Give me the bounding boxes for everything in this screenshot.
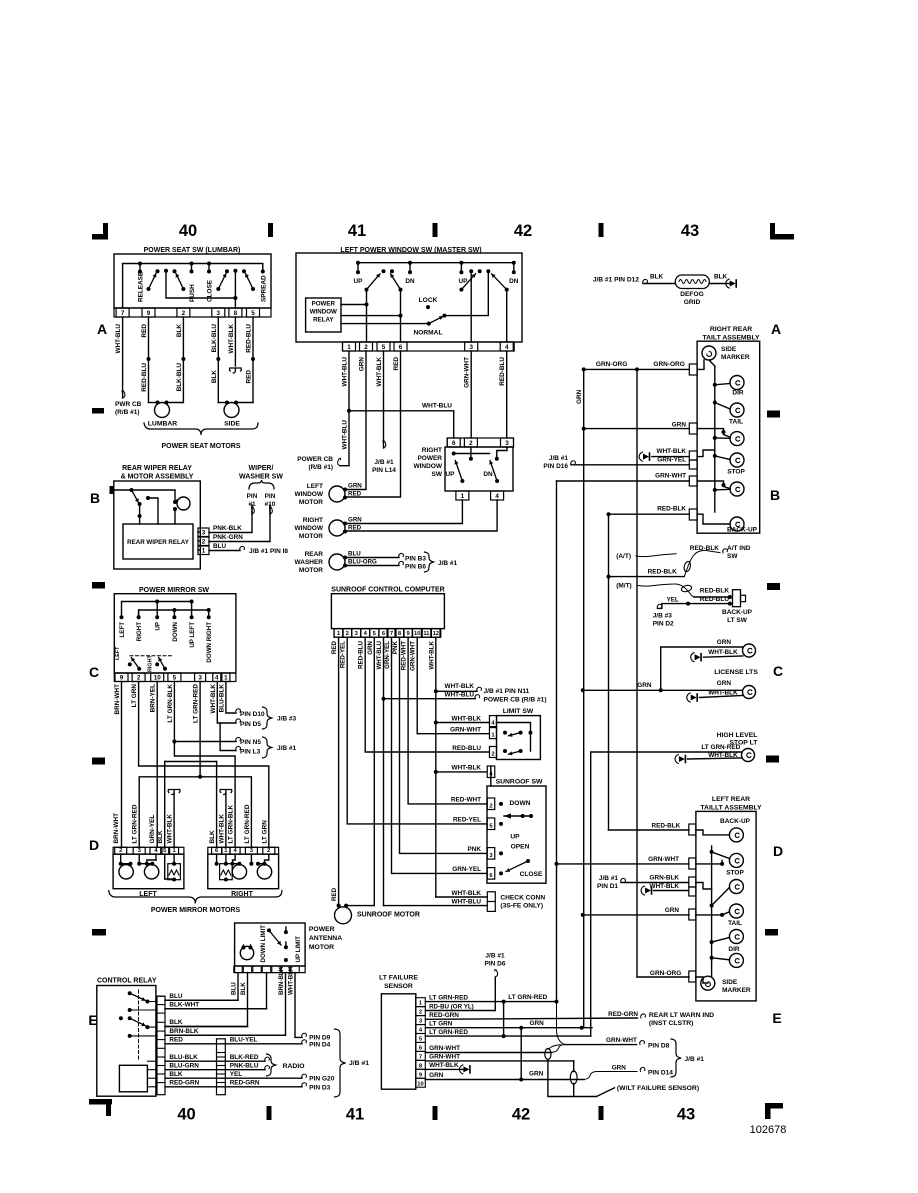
svg-text:2: 2 bbox=[419, 1010, 422, 1016]
svg-text:DOWN LIMIT: DOWN LIMIT bbox=[260, 925, 267, 963]
svg-text:J/B #1: J/B #1 bbox=[485, 953, 505, 960]
svg-text:3: 3 bbox=[419, 1019, 423, 1025]
right sw arm up bbox=[460, 479, 464, 483]
RELEASE contact bbox=[138, 262, 142, 266]
svg-text:GRN-WHT: GRN-WHT bbox=[429, 1045, 460, 1052]
mirror sw contact LEFT bbox=[120, 615, 124, 619]
wiper relay input connector bbox=[110, 486, 114, 494]
wire to J/B#1 PIN L3 bbox=[220, 723, 236, 751]
wire side marker feed bbox=[697, 360, 704, 369]
wire GRN-WHT right tail bbox=[557, 480, 690, 482]
PUSH contact bbox=[190, 262, 194, 266]
side marker lamp right bbox=[702, 346, 716, 360]
svg-text:2: 2 bbox=[489, 804, 492, 810]
STOP lamp left upper bbox=[729, 853, 743, 867]
CLOSE contact bbox=[207, 262, 211, 266]
limit sw arm row2 bbox=[509, 751, 521, 754]
svg-text:MARKER: MARKER bbox=[722, 987, 751, 994]
svg-text:BLU-ORG: BLU-ORG bbox=[348, 559, 377, 566]
sensor pin cells bbox=[416, 998, 426, 1007]
wire normal sw to rocker right bbox=[444, 271, 488, 315]
svg-text:UP LIMIT: UP LIMIT bbox=[295, 936, 302, 963]
svg-text:BLU-GRN: BLU-GRN bbox=[169, 1062, 199, 1069]
TAIL lamp right bbox=[730, 403, 744, 417]
svg-text:RED: RED bbox=[348, 491, 362, 498]
svg-text:BLK: BLK bbox=[650, 274, 664, 281]
right power window sw box bbox=[445, 447, 513, 491]
svg-text:PIN D2: PIN D2 bbox=[653, 621, 674, 628]
svg-text:PIN: PIN bbox=[265, 493, 276, 500]
svg-text:LT GRN: LT GRN bbox=[261, 820, 268, 844]
wire RED-YEL computer pin2 to sunroof sw pin5 bbox=[347, 637, 487, 824]
svg-text:RIGHT: RIGHT bbox=[136, 622, 143, 641]
seat sw rocker 2 center wire to pin 8 bbox=[233, 296, 237, 300]
wire BLK pin2 to lumbar motor bbox=[182, 317, 184, 403]
sunroof sw contact pin5 bbox=[499, 822, 503, 826]
svg-text:GRN-ORG: GRN-ORG bbox=[596, 361, 627, 368]
svg-text:SUNROOF CONTROL COMPUTER: SUNROOF CONTROL COMPUTER bbox=[331, 587, 444, 594]
svg-text:DEFOG: DEFOG bbox=[680, 291, 703, 298]
wire LT GRN-RED mirror pin3 bbox=[199, 682, 201, 777]
wire BRN-BLK antenna bbox=[165, 973, 286, 1036]
svg-text:9: 9 bbox=[406, 631, 410, 637]
svg-text:(R/B #1): (R/B #1) bbox=[308, 464, 333, 471]
svg-text:WASHER: WASHER bbox=[294, 559, 323, 566]
wire GRN-WHT bus continues bbox=[556, 864, 558, 1002]
svg-text:MOTOR: MOTOR bbox=[299, 499, 323, 506]
power antenna motor box bbox=[235, 923, 306, 966]
svg-text:SW: SW bbox=[727, 553, 738, 560]
SPREAD contact bbox=[261, 270, 265, 274]
svg-text:1: 1 bbox=[337, 631, 341, 637]
svg-text:A: A bbox=[97, 321, 107, 337]
svg-text:PIN D10: PIN D10 bbox=[240, 711, 265, 718]
right tail inner bus bbox=[714, 366, 716, 512]
wire W/LT failure sensor branch 1 bbox=[549, 1045, 561, 1050]
svg-text:WHT-BLU: WHT-BLU bbox=[342, 357, 349, 387]
frame corner top-right bbox=[770, 234, 794, 240]
svg-text:PIN L14: PIN L14 bbox=[372, 467, 396, 474]
DN contact 1 bbox=[408, 261, 412, 265]
svg-text:2: 2 bbox=[119, 848, 122, 854]
svg-text:RED-WHT: RED-WHT bbox=[451, 797, 481, 804]
sunroof sw pin 3 bbox=[487, 848, 495, 860]
wire RED-BLK to backup lt sw bbox=[694, 596, 730, 598]
seat sw rocker 2 contacts bbox=[216, 287, 220, 291]
wire GRN-WHT computer pin10 to limit sw pin1 bbox=[417, 637, 489, 734]
wire GRN to left tail bbox=[583, 914, 689, 916]
wire GRN-ORG right tail feed bbox=[637, 368, 689, 370]
relay output wire 1 bbox=[341, 304, 367, 306]
svg-text:SUNROOF SW: SUNROOF SW bbox=[496, 779, 543, 786]
svg-text:2: 2 bbox=[469, 440, 473, 447]
svg-text:(A/T): (A/T) bbox=[616, 553, 631, 560]
left rear tail box bbox=[696, 811, 756, 1001]
svg-text:RIGHT: RIGHT bbox=[422, 447, 442, 454]
wiper relay contact 2 bbox=[146, 496, 150, 500]
svg-text:BACK-UP: BACK-UP bbox=[720, 818, 751, 825]
wire BLK right motor pin6 bbox=[216, 762, 218, 848]
svg-text:3: 3 bbox=[250, 848, 254, 854]
wire LT GRN-RED sensor pin1 bbox=[425, 1001, 556, 1003]
svg-text:8: 8 bbox=[398, 631, 402, 637]
svg-text:BLK: BLK bbox=[176, 324, 183, 338]
svg-text:LT FAILURE: LT FAILURE bbox=[379, 975, 418, 982]
power mirror motors brace bbox=[109, 891, 282, 904]
svg-text:BLK: BLK bbox=[714, 274, 728, 281]
svg-text:GRID: GRID bbox=[684, 299, 701, 306]
TAIL lamp left upper bbox=[729, 904, 743, 918]
svg-text:1: 1 bbox=[224, 848, 228, 854]
right mirror resistor bbox=[224, 878, 228, 882]
wire LT GRN sensor pin4 bbox=[425, 1027, 592, 1029]
grid tick bottom 42/43 bbox=[599, 1106, 604, 1120]
svg-text:41: 41 bbox=[346, 1106, 364, 1124]
svg-text:D: D bbox=[89, 837, 99, 853]
svg-text:2: 2 bbox=[202, 539, 206, 546]
svg-text:TAIL: TAIL bbox=[729, 419, 743, 426]
svg-text:WHT-BLU: WHT-BLU bbox=[445, 692, 475, 699]
sunroof sw arrow 2 bbox=[526, 859, 530, 863]
backup lt sw body bbox=[733, 590, 741, 607]
grid tick right D/E bbox=[765, 929, 778, 936]
wire WHT-BLU computer pin6 bbox=[383, 637, 385, 905]
svg-text:PIN B3: PIN B3 bbox=[405, 556, 426, 563]
limit sw arm row1 bbox=[509, 733, 521, 736]
pin 7 bbox=[116, 308, 129, 317]
left mirror motor box bbox=[113, 854, 184, 889]
limit sw internal link bbox=[497, 723, 531, 752]
grid tick right B/C bbox=[767, 583, 780, 590]
DIR lamp left bbox=[729, 953, 743, 967]
svg-text:GRN-WHT: GRN-WHT bbox=[464, 357, 471, 388]
control relay lower box bbox=[119, 1065, 147, 1092]
wire GRN-WHT sensor pin8 bbox=[425, 1060, 573, 1062]
svg-text:5: 5 bbox=[373, 631, 377, 637]
svg-text:ANTENNA: ANTENNA bbox=[309, 935, 342, 942]
svg-text:RED-GRN: RED-GRN bbox=[169, 1080, 199, 1087]
svg-text:RELAY: RELAY bbox=[313, 317, 334, 324]
wire GRN-WHT pin3 down to right window sw bbox=[470, 351, 472, 438]
BACK-UP lamp left bbox=[729, 828, 743, 842]
wire RED-BLU pin5 to side motor bbox=[252, 317, 254, 403]
wire RED-BLK bus vertical bbox=[608, 514, 610, 830]
seat sw rocker 1 crossover wire bbox=[166, 271, 235, 298]
svg-text:RED: RED bbox=[246, 370, 253, 384]
svg-text:GRN: GRN bbox=[367, 640, 374, 654]
right mirror motor internals bbox=[215, 862, 219, 866]
svg-text:TAIL: TAIL bbox=[728, 920, 742, 927]
ground left mirror motor bbox=[168, 790, 180, 795]
svg-text:1: 1 bbox=[491, 733, 495, 739]
svg-text:CHECK CONN: CHECK CONN bbox=[500, 895, 545, 902]
svg-text:GRN-ORG: GRN-ORG bbox=[653, 361, 684, 368]
svg-text:GRN-YEL: GRN-YEL bbox=[384, 641, 391, 669]
svg-text:3: 3 bbox=[469, 344, 473, 351]
svg-text:4: 4 bbox=[215, 675, 219, 682]
wire pin3 vertical inside bbox=[470, 271, 472, 342]
svg-text:BLU-BLK: BLU-BLK bbox=[218, 684, 225, 713]
wiper relay switch arm bbox=[132, 490, 139, 503]
svg-text:WHT-BLK: WHT-BLK bbox=[210, 684, 217, 714]
svg-text:J/B #1: J/B #1 bbox=[549, 455, 569, 462]
svg-text:DN: DN bbox=[405, 278, 415, 285]
wire WHT-BLU branch to power cb bbox=[384, 698, 476, 700]
svg-text:MARKER: MARKER bbox=[721, 354, 750, 361]
svg-text:GRN: GRN bbox=[359, 357, 366, 372]
svg-text:2: 2 bbox=[137, 675, 141, 682]
wire GRN-ORG bus vertical to left tail side marker bbox=[636, 369, 638, 977]
svg-text:REAR WIPER RELAY: REAR WIPER RELAY bbox=[122, 465, 192, 472]
sunroof sw pin 4 bbox=[487, 766, 495, 778]
relay contacts bbox=[128, 991, 132, 995]
grid tick top 40/41 bbox=[268, 223, 273, 237]
right sw UP contact bbox=[452, 452, 456, 456]
mirror sw contact DOWN bbox=[172, 615, 176, 619]
washer J/B brace bbox=[425, 552, 434, 572]
svg-text:LT GRN: LT GRN bbox=[131, 684, 138, 708]
svg-text:SENSOR: SENSOR bbox=[384, 983, 413, 990]
svg-text:GRN: GRN bbox=[717, 680, 732, 687]
svg-text:PIN D6: PIN D6 bbox=[485, 961, 506, 968]
svg-text:YEL: YEL bbox=[230, 1071, 243, 1078]
seat sw rocker 1 arms bbox=[149, 274, 157, 290]
grid tick bottom 41/42 bbox=[433, 1106, 438, 1120]
wire WHT-BLK license lower bbox=[691, 695, 697, 701]
svg-text:GRN: GRN bbox=[665, 907, 680, 914]
svg-text:PWR CB: PWR CB bbox=[115, 401, 142, 408]
wire LT GRN-RED high level bbox=[591, 752, 742, 1036]
right mirror motor circle 1 bbox=[232, 865, 246, 879]
svg-text:LT GRN-RED: LT GRN-RED bbox=[508, 994, 547, 1001]
license lamp lower bbox=[743, 686, 756, 699]
svg-text:REAR WIPER RELAY: REAR WIPER RELAY bbox=[127, 539, 190, 546]
wire GRN-WHT to left tail bbox=[557, 863, 690, 865]
svg-text:DN: DN bbox=[483, 471, 493, 478]
svg-text:4: 4 bbox=[419, 1028, 423, 1034]
wire RED-BLK right tail bbox=[607, 512, 611, 516]
svg-text:RED-BLK: RED-BLK bbox=[690, 545, 720, 552]
wire RED-BLU from backup lt sw bbox=[728, 602, 732, 606]
svg-text:BACK-UP: BACK-UP bbox=[722, 609, 753, 616]
svg-text:J/B #1: J/B #1 bbox=[599, 875, 619, 882]
svg-text:PIN D14: PIN D14 bbox=[648, 1070, 673, 1077]
lt failure sensor box bbox=[381, 994, 415, 1089]
svg-text:BLK: BLK bbox=[211, 370, 218, 384]
defog grid symbol bbox=[675, 275, 709, 289]
svg-text:WHT-BLK: WHT-BLK bbox=[376, 357, 383, 387]
svg-text:RED-YEL: RED-YEL bbox=[453, 817, 481, 824]
svg-text:WHT-BLK: WHT-BLK bbox=[650, 883, 680, 890]
left tail inner bus bbox=[711, 846, 713, 962]
svg-text:42: 42 bbox=[512, 1106, 530, 1124]
svg-text:(W/LT FAILURE SENSOR): (W/LT FAILURE SENSOR) bbox=[617, 1085, 699, 1092]
svg-text:40: 40 bbox=[179, 222, 197, 240]
mirror sw pin row bbox=[114, 673, 236, 682]
svg-text:7: 7 bbox=[390, 631, 393, 637]
wire BLK relay bbox=[165, 1026, 248, 1028]
svg-text:RED-GRN: RED-GRN bbox=[608, 1011, 638, 1018]
left mirror resistor bbox=[164, 854, 166, 879]
svg-text:RED-GRN: RED-GRN bbox=[230, 1080, 260, 1087]
svg-text:(INST CLSTR): (INST CLSTR) bbox=[649, 1020, 694, 1027]
wire WHT-BLK branch to sunroof sw pin4 bbox=[436, 771, 487, 773]
svg-text:WINDOW: WINDOW bbox=[413, 463, 442, 470]
wire BLU-GRN / PNK-BLU to radio bbox=[165, 1069, 265, 1071]
wire pin6 vertical bbox=[400, 290, 402, 342]
svg-text:POWER CB (R/B #1): POWER CB (R/B #1) bbox=[484, 697, 547, 704]
svg-text:WHT-BLK: WHT-BLK bbox=[452, 890, 482, 897]
svg-text:BLU-YEL: BLU-YEL bbox=[230, 1037, 258, 1044]
J/B #3 brace bbox=[263, 707, 272, 729]
wire WHT-BLK mirror pin4 to J/B#3 pin D5 bbox=[217, 682, 236, 724]
wire RED-GRN sensor pin3 to rear lt warn ind bbox=[425, 1018, 637, 1019]
svg-text:GRN-WHT: GRN-WHT bbox=[655, 473, 686, 480]
svg-text:GRN: GRN bbox=[576, 389, 583, 404]
wire to J/B#1 PIN N5 bbox=[174, 741, 236, 743]
svg-text:BLK: BLK bbox=[209, 830, 216, 844]
wire PNK-GRN pin2 to wiper/washer sw pin10 bbox=[209, 505, 270, 542]
svg-text:RED-BLU: RED-BLU bbox=[246, 324, 253, 353]
svg-text:MOTOR: MOTOR bbox=[299, 567, 323, 574]
wire GRN right sw pin1 to right window motor bbox=[345, 500, 462, 524]
power seat sw top bus wire bbox=[123, 264, 263, 309]
grid tick bottom 40/41 bbox=[267, 1106, 272, 1120]
svg-text:WHT-BLK: WHT-BLK bbox=[167, 814, 174, 844]
svg-text:LICENSE LTS: LICENSE LTS bbox=[714, 669, 758, 676]
svg-text:WHT-BLK: WHT-BLK bbox=[288, 966, 295, 995]
svg-text:RED-BLK: RED-BLK bbox=[700, 588, 730, 595]
svg-text:5: 5 bbox=[163, 848, 167, 854]
left mirror motor circle 2 bbox=[144, 865, 158, 879]
wire WHT-BLK branch to J/B #1 PIN N11 bbox=[436, 690, 477, 692]
master window switch box bbox=[296, 253, 522, 342]
svg-text:6: 6 bbox=[419, 1045, 423, 1051]
wire pin2 vertical bbox=[366, 290, 368, 342]
check conn box bbox=[487, 892, 495, 912]
svg-text:11: 11 bbox=[423, 631, 430, 637]
wire W/LT diagonal bbox=[597, 1088, 615, 1097]
grid tick right C/D bbox=[766, 756, 779, 763]
wiper relay pin 1 bbox=[198, 546, 209, 555]
svg-text:4: 4 bbox=[505, 344, 509, 351]
svg-text:RED-BLU: RED-BLU bbox=[499, 357, 506, 386]
svg-text:RED-GRN: RED-GRN bbox=[429, 1012, 459, 1019]
svg-text:BLK: BLK bbox=[169, 1019, 183, 1026]
svg-text:BLU: BLU bbox=[169, 993, 183, 1000]
svg-text:A/T IND: A/T IND bbox=[727, 545, 751, 552]
antenna sw contacts bbox=[267, 928, 271, 932]
sunroof sw arrow line 1 bbox=[504, 815, 531, 817]
svg-text:LEFT: LEFT bbox=[307, 483, 323, 490]
svg-text:PNK: PNK bbox=[468, 846, 482, 853]
svg-text:PIN G20: PIN G20 bbox=[309, 1076, 335, 1083]
svg-text:PIN: PIN bbox=[247, 493, 258, 500]
svg-text:10: 10 bbox=[417, 1081, 423, 1087]
svg-text:PIN D5: PIN D5 bbox=[240, 721, 261, 728]
svg-text:4: 4 bbox=[233, 848, 237, 854]
wire GRN-WHT into stop bbox=[696, 863, 722, 865]
svg-text:GRN: GRN bbox=[530, 1020, 545, 1027]
svg-text:BLK-BLU: BLK-BLU bbox=[211, 324, 218, 353]
sunroof control computer box bbox=[331, 594, 444, 629]
svg-text:LT GRN-RED: LT GRN-RED bbox=[429, 995, 468, 1002]
svg-text:4: 4 bbox=[491, 721, 495, 727]
STOP lamp right upper bbox=[730, 453, 744, 467]
svg-text:GRN: GRN bbox=[348, 483, 362, 490]
wiper relay pin 2 bbox=[198, 537, 209, 546]
svg-text:LIMIT SW: LIMIT SW bbox=[503, 708, 534, 715]
J/B #1 brace mirror bbox=[263, 737, 272, 758]
wire RED-WHT computer pin9 to sunroof sw pin2 bbox=[408, 637, 487, 804]
svg-text:PNK-GRN: PNK-GRN bbox=[213, 534, 243, 541]
wire WHT-BLK to check conn bbox=[436, 896, 488, 898]
license lamp upper bbox=[743, 644, 756, 657]
svg-text:GRN-YEL: GRN-YEL bbox=[452, 866, 481, 873]
limit sw contacts row1 bbox=[503, 731, 507, 735]
svg-text:D: D bbox=[773, 843, 783, 859]
wire BLU pin1 to J/B #1 pin I8 bbox=[209, 550, 240, 552]
svg-text:C: C bbox=[773, 663, 783, 679]
limit sw box bbox=[497, 716, 541, 760]
svg-text:WHT-BLK: WHT-BLK bbox=[708, 752, 738, 759]
UP contact 1 bbox=[356, 261, 360, 265]
wire BLU antenna bbox=[165, 973, 238, 1001]
svg-text:RADIO: RADIO bbox=[283, 1063, 305, 1070]
grid tick top 41/42 bbox=[433, 223, 438, 237]
svg-text:C: C bbox=[89, 664, 99, 680]
svg-text:BRN-BLK: BRN-BLK bbox=[278, 966, 285, 995]
side marker wire left bbox=[696, 977, 708, 983]
right sw bottom pins bbox=[456, 491, 469, 500]
svg-text:GRN: GRN bbox=[637, 682, 652, 689]
svg-text:RIGHT REAR: RIGHT REAR bbox=[710, 326, 752, 333]
J/B #1 brace bottom right bbox=[671, 1039, 681, 1077]
svg-text:6: 6 bbox=[489, 873, 493, 879]
svg-text:1: 1 bbox=[419, 1001, 423, 1007]
DN contact 2 bbox=[512, 261, 516, 265]
svg-text:BLK: BLK bbox=[240, 982, 247, 995]
svg-text:HIGH LEVEL: HIGH LEVEL bbox=[717, 732, 758, 739]
svg-text:SIDE: SIDE bbox=[722, 979, 738, 986]
svg-text:DIR: DIR bbox=[728, 946, 740, 953]
wire GRN to right tail bbox=[582, 427, 586, 431]
wire GRN computer pin5 to sunroof motor bbox=[346, 637, 374, 905]
svg-text:GRN-WHT: GRN-WHT bbox=[648, 856, 679, 863]
svg-text:STOP: STOP bbox=[727, 469, 745, 476]
svg-text:POWER MIRROR MOTORS: POWER MIRROR MOTORS bbox=[151, 907, 241, 914]
svg-text:WASHER SW: WASHER SW bbox=[239, 474, 283, 481]
wire LT GRN-BLK mirror pin5 bbox=[173, 682, 175, 742]
wire WHT-BLK high level bbox=[679, 756, 685, 762]
svg-text:GRN: GRN bbox=[529, 1071, 544, 1078]
svg-text:7: 7 bbox=[121, 310, 125, 317]
svg-text:8: 8 bbox=[234, 310, 238, 317]
mirror sw bus 2 bbox=[139, 610, 209, 617]
radio connector strip bbox=[217, 1039, 226, 1095]
wire GRN license upper bbox=[661, 647, 743, 690]
svg-text:9: 9 bbox=[120, 675, 124, 682]
wire GRN-ORG bus horizontal bbox=[584, 368, 637, 370]
wire W/LT failure sensor branch 2 bbox=[573, 1061, 575, 1072]
svg-text:DN: DN bbox=[509, 278, 519, 285]
svg-text:LT GRN-RED: LT GRN-RED bbox=[244, 804, 251, 843]
svg-text:BLK-WHT: BLK-WHT bbox=[169, 1002, 199, 1009]
wiper motor circle bbox=[177, 497, 190, 510]
sunroof motor bbox=[335, 907, 352, 924]
svg-text:WHT-BLU: WHT-BLU bbox=[422, 403, 452, 410]
frame corner top-left bbox=[92, 234, 108, 240]
